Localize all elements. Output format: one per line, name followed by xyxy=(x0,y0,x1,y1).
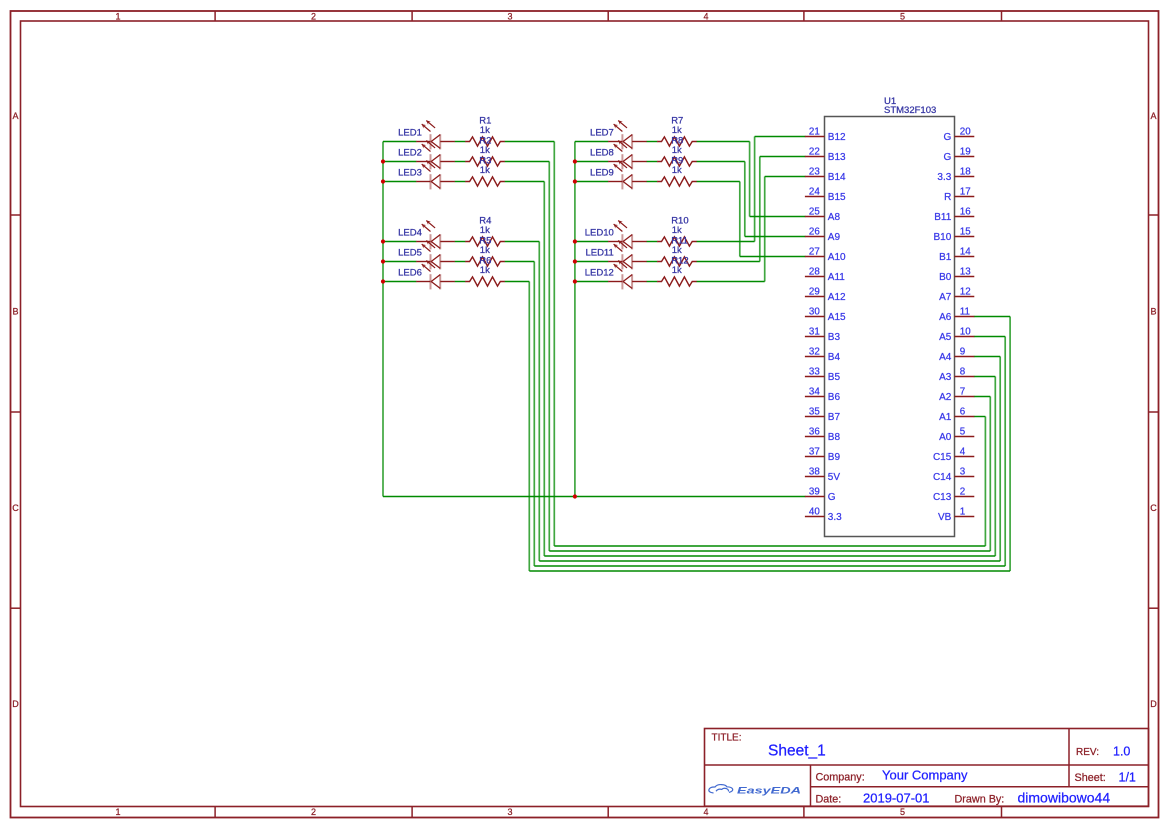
wire LED9 cathode to R9 xyxy=(647,181,658,183)
svg-text:B12: B12 xyxy=(828,132,846,143)
junction LED8 row / middle bus xyxy=(573,159,577,163)
title block row divider 1 xyxy=(705,764,1149,766)
svg-text:A8: A8 xyxy=(828,212,841,223)
right ruler letters A-D xyxy=(1150,111,1157,709)
wire R12 to corner xyxy=(697,281,765,283)
LED diode LED10 xyxy=(608,221,647,250)
pin 33 stub xyxy=(805,376,825,378)
svg-text:EasyEDA: EasyEDA xyxy=(737,786,801,797)
svg-text:C13: C13 xyxy=(933,492,952,503)
wire R3 to IC pin xyxy=(974,376,996,378)
svg-text:4: 4 xyxy=(960,447,966,458)
wire R9 corner vertical xyxy=(739,182,741,257)
wire R5 to IC pin xyxy=(974,336,1005,338)
pin 37 stub xyxy=(805,456,825,458)
svg-text:10: 10 xyxy=(960,327,971,338)
svg-text:9: 9 xyxy=(960,347,965,358)
svg-text:R: R xyxy=(944,192,951,203)
svg-text:31: 31 xyxy=(809,327,820,338)
left ruler letters A-D xyxy=(12,111,19,709)
svg-text:B7: B7 xyxy=(828,412,841,423)
resistor R6 xyxy=(465,277,505,286)
pin 13 stub xyxy=(955,276,975,278)
svg-text:4: 4 xyxy=(703,807,708,817)
svg-text:1k: 1k xyxy=(672,265,682,276)
resistor R10 xyxy=(657,237,697,246)
resistor R5 xyxy=(465,257,505,266)
svg-text:B4: B4 xyxy=(828,352,841,363)
svg-text:TITLE:: TITLE: xyxy=(712,733,742,744)
bottom ruler ticks xyxy=(215,807,1001,818)
pin 38 stub xyxy=(805,476,825,478)
junction LED4 row / left bus xyxy=(381,239,385,243)
svg-text:17: 17 xyxy=(960,187,971,198)
wire R2 to drop xyxy=(505,161,550,163)
svg-text:B3: B3 xyxy=(828,332,841,343)
junction LED3 row / left bus xyxy=(381,179,385,183)
svg-text:LED12: LED12 xyxy=(585,267,614,278)
LED diode LED8 xyxy=(608,141,647,170)
pin 19 stub xyxy=(955,156,975,158)
svg-text:26: 26 xyxy=(809,227,820,238)
wire R4 drop vertical xyxy=(538,242,540,562)
pin 17 stub xyxy=(955,196,975,198)
pin 29 stub xyxy=(805,296,825,298)
svg-text:5: 5 xyxy=(960,427,966,438)
pin 31 stub xyxy=(805,336,825,338)
svg-text:A: A xyxy=(12,111,18,121)
wire R11 to IC pin xyxy=(760,156,806,158)
svg-text:C14: C14 xyxy=(933,472,952,483)
pin 15 stub xyxy=(955,236,975,238)
svg-text:2: 2 xyxy=(311,807,316,817)
pin 3 stub xyxy=(955,476,975,478)
LED diode LED9 xyxy=(608,161,647,190)
wire R6 to IC pin xyxy=(974,316,1010,318)
pin 24 stub xyxy=(805,196,825,198)
pin 25 stub xyxy=(805,216,825,218)
wire ground net to pin 39 G xyxy=(383,496,805,498)
resistor R3 xyxy=(465,177,505,186)
svg-text:24: 24 xyxy=(809,187,820,198)
svg-text:3: 3 xyxy=(507,807,512,817)
svg-text:A6: A6 xyxy=(939,312,952,323)
svg-text:1: 1 xyxy=(115,12,120,22)
svg-text:1k: 1k xyxy=(480,165,490,176)
junction LED6 row / left bus xyxy=(381,279,385,283)
pin 32 stub xyxy=(805,356,825,358)
wire LED5 cathode to R5 xyxy=(455,261,466,263)
wire LED5 bus to anode xyxy=(383,261,416,263)
svg-text:1k: 1k xyxy=(672,245,682,256)
svg-text:33: 33 xyxy=(809,367,820,378)
svg-text:LED6: LED6 xyxy=(398,267,422,278)
svg-text:LED3: LED3 xyxy=(398,167,422,178)
svg-text:25: 25 xyxy=(809,207,820,218)
svg-text:1: 1 xyxy=(960,507,965,518)
junction LED2 row / left bus xyxy=(381,159,385,163)
pin 2 stub xyxy=(955,496,975,498)
svg-text:39: 39 xyxy=(809,487,820,498)
wire LED4 cathode to R4 xyxy=(455,241,466,243)
wire R8 corner vertical xyxy=(744,162,746,237)
wire R2 bottom bus horizontal xyxy=(549,550,990,552)
svg-text:1k: 1k xyxy=(672,225,682,236)
svg-text:REV:: REV: xyxy=(1076,747,1099,758)
svg-text:1k: 1k xyxy=(480,245,490,256)
resistor R8 xyxy=(657,157,697,166)
svg-text:5: 5 xyxy=(900,807,905,817)
svg-text:A3: A3 xyxy=(939,372,952,383)
svg-text:Sheet_1: Sheet_1 xyxy=(768,743,826,760)
pin 34 stub xyxy=(805,396,825,398)
svg-text:2019-07-01: 2019-07-01 xyxy=(863,791,930,806)
svg-text:A4: A4 xyxy=(939,352,952,363)
pin 1 stub xyxy=(955,516,975,518)
wire LED8 cathode to R8 xyxy=(647,161,658,163)
pin 8 stub xyxy=(955,376,975,378)
wire LED12 cathode to R12 xyxy=(647,281,658,283)
LED diode LED12 xyxy=(608,261,647,290)
svg-text:8: 8 xyxy=(960,367,966,378)
wire R6 to drop xyxy=(505,281,530,283)
wire LED4 bus to anode xyxy=(383,241,416,243)
wire R4 right riser vertical xyxy=(999,357,1001,562)
pin 20 stub xyxy=(955,136,975,138)
pin 11 stub xyxy=(955,316,975,318)
svg-text:1k: 1k xyxy=(480,265,490,276)
wire R1 bottom bus horizontal xyxy=(554,545,985,547)
svg-text:38: 38 xyxy=(809,467,820,478)
wire R4 bottom bus horizontal xyxy=(539,560,1000,562)
svg-text:11: 11 xyxy=(960,307,970,318)
pin 18 stub xyxy=(955,176,975,178)
LED diode LED7 xyxy=(608,121,647,150)
title block outline xyxy=(705,729,1149,807)
wire R3 bottom bus horizontal xyxy=(544,555,995,557)
svg-text:A11: A11 xyxy=(828,272,845,283)
svg-text:A: A xyxy=(1150,111,1156,121)
svg-text:B9: B9 xyxy=(828,452,841,463)
svg-text:4: 4 xyxy=(703,12,708,22)
junction LED5 row / left bus xyxy=(381,259,385,263)
wire R5 to drop xyxy=(505,261,535,263)
title block row divider 2 xyxy=(811,786,1149,788)
LED diode LED3 xyxy=(416,161,455,190)
svg-text:LED11: LED11 xyxy=(585,247,613,258)
wire LED6 bus to anode xyxy=(383,281,416,283)
wire R5 right riser vertical xyxy=(1004,337,1006,567)
pin 7 stub xyxy=(955,396,975,398)
left ruler ticks xyxy=(11,215,21,608)
svg-text:B6: B6 xyxy=(828,392,841,403)
svg-text:LED8: LED8 xyxy=(590,147,614,158)
wire R1 drop vertical xyxy=(553,142,555,547)
pin 16 stub xyxy=(955,216,975,218)
svg-text:A15: A15 xyxy=(828,312,846,323)
wire R4 to drop xyxy=(505,241,540,243)
wire LED7 cathode to R7 xyxy=(647,141,658,143)
EasyEDA logo xyxy=(709,785,801,797)
svg-text:B5: B5 xyxy=(828,372,841,383)
junction middle bus / ground wire xyxy=(573,494,577,498)
wire R12 corner vertical xyxy=(764,177,766,282)
svg-text:A2: A2 xyxy=(939,392,952,403)
wire LED10 cathode to R10 xyxy=(647,241,658,243)
svg-text:B13: B13 xyxy=(828,152,846,163)
junction LED10 row / middle bus xyxy=(573,239,577,243)
svg-text:34: 34 xyxy=(809,387,820,398)
pin 28 stub xyxy=(805,276,825,278)
svg-text:1k: 1k xyxy=(480,225,490,236)
wire R1 to IC pin xyxy=(974,416,986,418)
svg-text:1: 1 xyxy=(115,807,120,817)
wire LED10 bus to anode xyxy=(575,241,608,243)
svg-text:B: B xyxy=(1150,307,1156,317)
wire R2 right riser vertical xyxy=(989,397,991,552)
pin 30 stub xyxy=(805,316,825,318)
wire R10 to corner xyxy=(697,241,755,243)
wire LED11 bus to anode xyxy=(575,261,608,263)
svg-text:32: 32 xyxy=(809,347,820,358)
wire LED3 bus to anode xyxy=(383,181,416,183)
wire LED1 cathode to R1 xyxy=(455,141,466,143)
wire R5 drop vertical xyxy=(533,262,535,567)
svg-text:LED10: LED10 xyxy=(585,227,614,238)
svg-text:6: 6 xyxy=(960,407,966,418)
svg-text:23: 23 xyxy=(809,167,820,178)
wire LED2 bus to anode xyxy=(383,161,416,163)
top ruler ticks xyxy=(215,11,1001,21)
svg-text:18: 18 xyxy=(960,167,971,178)
pin 21 stub xyxy=(805,136,825,138)
title block logo cell divider xyxy=(810,765,812,806)
svg-text:LED4: LED4 xyxy=(398,227,422,238)
svg-text:3: 3 xyxy=(507,12,512,22)
svg-text:37: 37 xyxy=(809,447,820,458)
wire R3 drop vertical xyxy=(543,182,545,557)
svg-text:G: G xyxy=(944,152,952,163)
svg-text:Your Company: Your Company xyxy=(882,768,968,783)
svg-text:G: G xyxy=(944,132,952,143)
svg-text:20: 20 xyxy=(960,127,971,138)
wire R11 corner vertical xyxy=(759,157,761,262)
title block rev cell divider xyxy=(1068,729,1070,787)
svg-text:27: 27 xyxy=(809,247,820,258)
resistor R1 xyxy=(465,137,505,146)
svg-text:B8: B8 xyxy=(828,432,841,443)
svg-text:40: 40 xyxy=(809,507,820,518)
svg-text:36: 36 xyxy=(809,427,820,438)
wire R9 to corner xyxy=(697,181,740,183)
resistor R12 xyxy=(657,277,697,286)
pin 39 stub xyxy=(805,496,825,498)
svg-text:Sheet:: Sheet: xyxy=(1075,772,1106,784)
svg-text:1k: 1k xyxy=(672,145,682,156)
wire R11 to corner xyxy=(697,261,760,263)
LED diode LED6 xyxy=(416,261,455,290)
svg-text:1.0: 1.0 xyxy=(1113,745,1130,759)
svg-text:2: 2 xyxy=(960,487,965,498)
wire R3 right riser vertical xyxy=(994,377,996,557)
pin 40 stub xyxy=(805,516,825,518)
wire R7 corner vertical xyxy=(749,142,751,217)
wire R4 to IC pin xyxy=(974,356,1000,358)
junction LED12 row / middle bus xyxy=(573,279,577,283)
svg-text:STM32F103: STM32F103 xyxy=(884,105,936,116)
svg-text:A1: A1 xyxy=(939,412,952,423)
svg-text:21: 21 xyxy=(809,127,820,138)
wire left group cathode bus xyxy=(382,142,384,497)
resistor R7 xyxy=(657,137,697,146)
svg-text:A7: A7 xyxy=(939,292,952,303)
pin 23 stub xyxy=(805,176,825,178)
svg-text:D: D xyxy=(12,699,19,709)
svg-text:A10: A10 xyxy=(828,252,846,263)
svg-text:5: 5 xyxy=(900,12,905,22)
wire R10 corner vertical xyxy=(754,137,756,242)
wire R7 to corner xyxy=(697,141,750,143)
svg-text:dimowibowo44: dimowibowo44 xyxy=(1018,790,1111,806)
top ruler numbers 1-5 xyxy=(115,12,905,22)
resistor R9 xyxy=(657,177,697,186)
wire LED11 cathode to R11 xyxy=(647,261,658,263)
wire R9 to IC pin xyxy=(740,256,806,258)
pin 4 stub xyxy=(955,456,975,458)
wire LED1 bus to anode xyxy=(383,141,416,143)
LED diode LED2 xyxy=(416,141,455,170)
svg-text:A9: A9 xyxy=(828,232,841,243)
svg-text:A0: A0 xyxy=(939,432,952,443)
LED diode LED5 xyxy=(416,241,455,270)
pin 26 stub xyxy=(805,236,825,238)
pin 5 stub xyxy=(955,436,975,438)
resistor R4 xyxy=(465,237,505,246)
svg-text:1k: 1k xyxy=(480,145,490,156)
bottom ruler numbers 1-5 xyxy=(115,807,905,817)
svg-text:B15: B15 xyxy=(828,192,846,203)
svg-text:7: 7 xyxy=(960,387,965,398)
svg-text:3.3: 3.3 xyxy=(937,172,951,183)
svg-text:D: D xyxy=(1150,699,1157,709)
svg-text:29: 29 xyxy=(809,287,820,298)
svg-text:15: 15 xyxy=(960,227,971,238)
svg-text:LED2: LED2 xyxy=(398,147,422,158)
svg-text:16: 16 xyxy=(960,207,971,218)
LED diode LED4 xyxy=(416,221,455,250)
svg-text:A5: A5 xyxy=(939,332,952,343)
pin 12 stub xyxy=(955,296,975,298)
svg-text:1k: 1k xyxy=(672,165,682,176)
wire R1 right riser vertical xyxy=(984,417,986,547)
svg-text:B14: B14 xyxy=(828,172,846,183)
wire R6 bottom bus horizontal xyxy=(529,570,1010,572)
pin 10 stub xyxy=(955,336,975,338)
svg-text:C15: C15 xyxy=(933,452,952,463)
svg-text:2: 2 xyxy=(311,12,316,22)
pin 22 stub xyxy=(805,156,825,158)
junction LED11 row / middle bus xyxy=(573,259,577,263)
svg-text:14: 14 xyxy=(960,247,971,258)
svg-text:35: 35 xyxy=(809,407,820,418)
svg-text:LED9: LED9 xyxy=(590,167,614,178)
svg-text:30: 30 xyxy=(809,307,820,318)
wire R8 to IC pin xyxy=(745,236,806,238)
resistor R2 xyxy=(465,157,505,166)
wire LED12 bus to anode xyxy=(575,281,608,283)
wire LED6 cathode to R6 xyxy=(455,281,466,283)
wire R6 right riser vertical xyxy=(1009,317,1011,572)
svg-text:B10: B10 xyxy=(934,232,952,243)
wire middle group cathode bus xyxy=(574,142,576,497)
wire R2 to IC pin xyxy=(974,396,991,398)
pin 14 stub xyxy=(955,256,975,258)
svg-text:1k: 1k xyxy=(480,125,490,136)
wire LED3 cathode to R3 xyxy=(455,181,466,183)
LED diode LED11 xyxy=(608,241,647,270)
svg-text:LED5: LED5 xyxy=(398,247,422,258)
svg-text:Date:: Date: xyxy=(816,793,842,805)
wire R7 to IC pin xyxy=(750,216,806,218)
svg-text:19: 19 xyxy=(960,147,971,158)
svg-text:3.3: 3.3 xyxy=(828,512,842,523)
wire LED7 bus to anode xyxy=(575,141,608,143)
junction LED9 row / middle bus xyxy=(573,179,577,183)
LED diode LED1 xyxy=(416,121,455,150)
svg-text:C: C xyxy=(12,503,19,513)
wire R8 to corner xyxy=(697,161,745,163)
svg-text:Drawn By:: Drawn By: xyxy=(955,793,1005,805)
wire LED9 bus to anode xyxy=(575,181,608,183)
pin 6 stub xyxy=(955,416,975,418)
svg-text:C: C xyxy=(1150,503,1157,513)
svg-text:22: 22 xyxy=(809,147,820,158)
wire LED2 cathode to R2 xyxy=(455,161,466,163)
pin 9 stub xyxy=(955,356,975,358)
wire LED8 bus to anode xyxy=(575,161,608,163)
IC U1 STM32F103 body xyxy=(825,117,955,537)
svg-text:1k: 1k xyxy=(672,125,682,136)
svg-text:12: 12 xyxy=(960,287,971,298)
wire R5 bottom bus horizontal xyxy=(534,565,1005,567)
svg-text:1/1: 1/1 xyxy=(1119,771,1136,785)
svg-text:LED1: LED1 xyxy=(398,127,422,138)
pin 27 stub xyxy=(805,256,825,258)
svg-text:3: 3 xyxy=(960,467,966,478)
svg-text:B1: B1 xyxy=(939,252,952,263)
svg-text:B0: B0 xyxy=(939,272,952,283)
svg-text:LED7: LED7 xyxy=(590,127,614,138)
wire R3 to drop xyxy=(505,181,545,183)
svg-text:5V: 5V xyxy=(828,472,841,483)
wire R1 to drop xyxy=(505,141,555,143)
svg-text:A12: A12 xyxy=(828,292,846,303)
wire R2 drop vertical xyxy=(548,162,550,552)
right ruler ticks xyxy=(1149,215,1159,608)
svg-text:28: 28 xyxy=(809,267,820,278)
wire R6 drop vertical xyxy=(528,282,530,572)
svg-text:G: G xyxy=(828,492,836,503)
svg-text:B11: B11 xyxy=(934,212,951,223)
svg-text:Company:: Company: xyxy=(816,772,865,784)
resistor R11 xyxy=(657,257,697,266)
pin 35 stub xyxy=(805,416,825,418)
wire R12 to IC pin xyxy=(765,176,806,178)
pin 36 stub xyxy=(805,436,825,438)
svg-text:VB: VB xyxy=(938,512,952,523)
svg-text:13: 13 xyxy=(960,267,971,278)
wire R10 to IC pin xyxy=(755,136,806,138)
